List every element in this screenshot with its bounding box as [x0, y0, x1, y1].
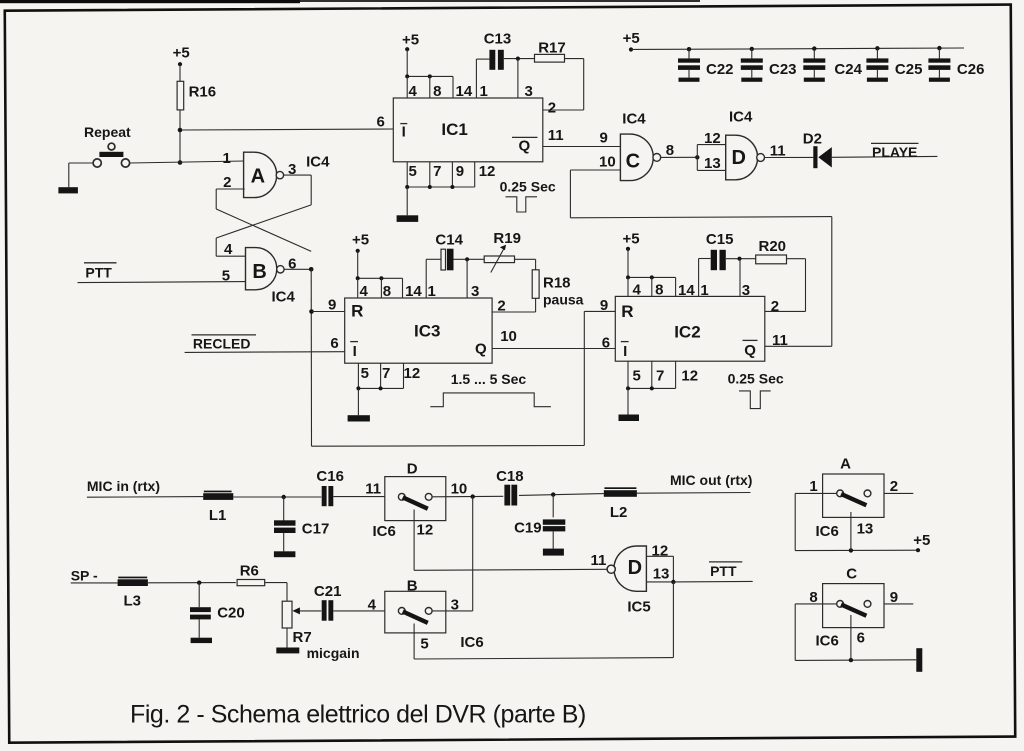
svg-text:MIC out (rtx): MIC out (rtx): [670, 472, 752, 488]
svg-text:+5: +5: [623, 230, 640, 247]
wire pin13: [850, 512, 852, 550]
wire: [535, 298, 537, 312]
wire: [333, 496, 398, 498]
svg-text:PTT: PTT: [85, 265, 112, 281]
svg-text:10: 10: [500, 328, 517, 345]
svg-text:IC2: IC2: [674, 322, 700, 341]
capacitor C13: [489, 50, 495, 70]
svg-text:+5: +5: [352, 232, 369, 249]
ground C17: [274, 551, 296, 557]
svg-text:C17: C17: [302, 521, 330, 538]
svg-text:IC4: IC4: [622, 110, 646, 127]
wire pin10: [570, 169, 620, 171]
IC1 box: [393, 98, 543, 162]
NAND gate C (IC4): [620, 134, 653, 181]
wire: [671, 580, 675, 584]
wire IC2 Q out pin11: [765, 345, 832, 347]
svg-text:IC5: IC5: [627, 598, 650, 615]
svg-text:8: 8: [666, 142, 674, 159]
wire: [71, 582, 118, 584]
svg-text:5: 5: [420, 636, 428, 653]
svg-text:IC4: IC4: [729, 109, 753, 126]
svg-text:A: A: [251, 166, 265, 188]
wire: [286, 628, 288, 648]
svg-text:C26: C26: [957, 61, 985, 78]
svg-text:9: 9: [600, 129, 608, 146]
switch B (IC6): [385, 591, 446, 633]
svg-text:2: 2: [771, 298, 779, 315]
inductor L3: [118, 577, 147, 579]
resistor R20: [756, 255, 787, 264]
svg-text:C18: C18: [496, 468, 524, 485]
svg-text:MIC in (rtx): MIC in (rtx): [87, 478, 160, 494]
node MIC out: [637, 492, 751, 495]
svg-text:D2: D2: [803, 131, 822, 148]
svg-text:8: 8: [433, 83, 441, 100]
ground bar switch C: [916, 648, 922, 672]
wire latch output down: [310, 269, 312, 446]
wire: [565, 58, 584, 60]
svg-text:L1: L1: [209, 507, 227, 524]
svg-text:3: 3: [471, 283, 479, 300]
wire: [283, 174, 311, 176]
wire: [515, 258, 536, 260]
wire down to switch B pin3: [472, 497, 474, 611]
svg-text:B: B: [252, 261, 266, 283]
svg-text:9: 9: [456, 163, 464, 180]
svg-text:5: 5: [361, 365, 369, 382]
svg-text:9: 9: [600, 297, 608, 314]
svg-text:6: 6: [602, 334, 610, 351]
node PTT output: [673, 580, 752, 583]
svg-text:IC6: IC6: [816, 633, 839, 650]
capacitor C14: [441, 249, 446, 270]
wire: [216, 188, 245, 190]
svg-text:R18: R18: [543, 274, 571, 291]
wire: [130, 161, 245, 163]
wire: [406, 49, 408, 76]
svg-text:12: 12: [652, 543, 669, 560]
svg-text:Q: Q: [519, 138, 531, 155]
svg-text:micgain: micgain: [307, 645, 360, 661]
wire: [284, 268, 311, 270]
capacitor C20: [198, 583, 200, 608]
wire: [519, 494, 604, 496]
wire: [265, 582, 287, 584]
svg-text:C23: C23: [769, 61, 797, 78]
svg-text:PTT: PTT: [710, 563, 737, 579]
switch D (IC6): [385, 477, 446, 521]
svg-text:C15: C15: [706, 231, 734, 248]
ground R7: [276, 648, 299, 654]
resistor R18: [532, 270, 539, 299]
ground C20: [191, 638, 212, 643]
svg-text:IC1: IC1: [441, 120, 467, 139]
svg-text:Fig. 2 - Schema elettrico del: Fig. 2 - Schema elettrico del DVR (parte…: [130, 700, 586, 728]
wire pin1: [425, 259, 427, 298]
svg-text:I: I: [402, 124, 406, 141]
svg-text:5: 5: [633, 368, 641, 385]
capacitor C15: [711, 250, 717, 270]
scan edge strip top: [0, 0, 300, 3]
svg-text:D: D: [407, 461, 418, 478]
svg-text:RECLED: RECLED: [193, 336, 251, 352]
svg-text:1.5 ... 5 Sec: 1.5 ... 5 Sec: [451, 371, 527, 387]
wire: [627, 388, 629, 414]
wire Q out pin11: [543, 146, 621, 148]
wire: [433, 495, 504, 498]
svg-text:14: 14: [456, 83, 473, 100]
wire: [69, 162, 93, 164]
svg-text:4: 4: [224, 241, 233, 258]
capacitor C16: [322, 486, 327, 506]
svg-text:2: 2: [497, 298, 505, 315]
wire: [179, 64, 181, 81]
svg-text:C25: C25: [895, 61, 923, 78]
capacitor C24: [803, 46, 862, 81]
svg-text:+5: +5: [402, 32, 419, 49]
resistor R17: [535, 54, 565, 62]
capacitor C21: [322, 600, 327, 621]
svg-text:3: 3: [525, 83, 533, 100]
wire: [180, 129, 393, 130]
svg-text:IC4: IC4: [272, 288, 296, 305]
svg-text:9: 9: [328, 296, 336, 313]
svg-text:IC6: IC6: [460, 634, 483, 651]
ground: [58, 187, 78, 193]
wire: [185, 351, 345, 354]
svg-text:C19: C19: [514, 520, 542, 537]
wire: [312, 445, 585, 448]
wire: [357, 388, 359, 415]
ground IC1: [397, 215, 419, 222]
svg-text:R16: R16: [189, 84, 217, 101]
svg-text:7: 7: [656, 368, 664, 385]
wire: [87, 496, 203, 499]
svg-text:2: 2: [890, 478, 898, 495]
svg-text:2: 2: [548, 100, 556, 117]
capacitor C18: [504, 485, 510, 506]
svg-text:11: 11: [770, 142, 786, 159]
svg-text:IC4: IC4: [306, 153, 330, 170]
svg-text:C: C: [846, 565, 857, 582]
inductor L2: [604, 487, 636, 489]
svg-text:C: C: [626, 151, 640, 173]
svg-text:3: 3: [742, 282, 750, 299]
wire: [504, 58, 535, 60]
svg-text:8: 8: [655, 281, 663, 298]
svg-text:0.25 Sec: 0.25 Sec: [728, 371, 784, 387]
wire switch B control: [413, 624, 415, 660]
wire pin6: [850, 615, 852, 660]
svg-text:14: 14: [678, 282, 695, 299]
diode D2: [813, 146, 817, 168]
svg-text:1: 1: [809, 478, 817, 495]
svg-text:1: 1: [480, 83, 488, 100]
svg-text:13: 13: [857, 521, 874, 538]
svg-text:6: 6: [330, 335, 338, 352]
svg-text:13: 13: [653, 566, 670, 583]
NAND gate B (IC4): [246, 248, 277, 290]
svg-text:B: B: [407, 578, 418, 595]
svg-text:+5: +5: [913, 532, 930, 549]
svg-text:PLAYE: PLAYE: [872, 144, 917, 160]
ground IC2: [619, 415, 640, 422]
capacitor C19: [552, 495, 554, 518]
inductor L1: [204, 491, 232, 493]
svg-text:Q: Q: [744, 342, 756, 359]
svg-text:pausa: pausa: [543, 291, 584, 307]
wire: [795, 492, 836, 494]
wire IC3 Q out: [492, 348, 615, 350]
svg-text:IC6: IC6: [816, 523, 839, 540]
wire: [884, 603, 913, 605]
ground IC3: [348, 415, 370, 421]
svg-text:C16: C16: [316, 468, 344, 485]
wire: [884, 492, 913, 494]
svg-text:10: 10: [451, 480, 468, 497]
wire: [148, 582, 236, 584]
svg-text:12: 12: [417, 522, 434, 539]
svg-text:A: A: [840, 455, 851, 472]
wire: [233, 496, 321, 498]
svg-text:8: 8: [383, 283, 391, 300]
svg-text:C20: C20: [217, 605, 245, 622]
resistor R19 trimmer: [484, 256, 514, 263]
svg-text:R6: R6: [240, 562, 259, 579]
wire: [406, 187, 408, 215]
svg-text:12: 12: [479, 163, 496, 180]
svg-text:R20: R20: [759, 238, 787, 255]
svg-text:Q: Q: [475, 340, 487, 357]
svg-text:SP -: SP -: [71, 567, 98, 583]
svg-text:6: 6: [288, 256, 296, 273]
svg-text:C24: C24: [834, 61, 862, 78]
wire IC5 inputs 12/13: [646, 555, 673, 557]
svg-text:7: 7: [433, 163, 441, 180]
capacitor C22: [678, 47, 734, 82]
NAND gate D (IC5, mirrored): [614, 546, 646, 591]
NAND gate D (IC4): [726, 135, 758, 180]
NAND gate A (IC4): [244, 152, 277, 197]
svg-text:12: 12: [681, 368, 698, 385]
svg-text:6: 6: [377, 114, 385, 131]
svg-text:4: 4: [409, 83, 418, 100]
svg-text:L2: L2: [610, 504, 628, 521]
wire: [78, 282, 246, 283]
wire: [584, 310, 615, 312]
svg-text:I: I: [623, 343, 627, 360]
svg-text:D: D: [732, 147, 746, 169]
resistor R16: [177, 81, 184, 110]
wire: [787, 258, 806, 260]
svg-text:12: 12: [404, 365, 421, 382]
svg-text:11: 11: [591, 552, 607, 569]
ground C19: [543, 549, 564, 556]
svg-text:C22: C22: [706, 61, 734, 78]
wire: [433, 610, 473, 612]
svg-text:4: 4: [368, 597, 377, 614]
svg-text:R: R: [351, 301, 363, 320]
wire gate C out: [661, 156, 698, 158]
svg-text:11: 11: [772, 332, 788, 349]
wire: [726, 258, 757, 260]
wire bracket pins 12/13: [696, 145, 698, 171]
wire: [765, 156, 814, 158]
wire: [631, 48, 964, 50]
svg-text:10: 10: [599, 154, 616, 171]
svg-text:11: 11: [548, 127, 564, 144]
svg-text:C21: C21: [314, 583, 342, 600]
wire pin1: [698, 259, 700, 297]
wire: [312, 311, 345, 313]
svg-text:C14: C14: [435, 231, 463, 248]
capacitor C23: [741, 47, 797, 82]
wire: [627, 249, 629, 278]
svg-text:C13: C13: [484, 31, 512, 48]
svg-text:1: 1: [223, 150, 231, 167]
IC2 bottom pins: [627, 361, 629, 388]
IC1 bottom pins: [406, 162, 408, 187]
svg-text:D: D: [628, 557, 642, 579]
svg-text:IC3: IC3: [414, 322, 440, 341]
svg-text:5: 5: [409, 163, 417, 180]
svg-text:12: 12: [704, 130, 721, 147]
wire: [357, 251, 359, 278]
svg-text:Repeat: Repeat: [84, 124, 131, 140]
wire: [832, 155, 938, 158]
svg-text:4: 4: [360, 283, 369, 300]
svg-text:+5: +5: [173, 45, 190, 62]
svg-text:11: 11: [365, 480, 381, 497]
wire pin1: [475, 59, 477, 98]
wire: [795, 603, 836, 605]
svg-text:1: 1: [428, 283, 436, 300]
svg-text:I: I: [353, 343, 357, 360]
capacitor C25: [866, 46, 922, 82]
wire: [179, 110, 181, 163]
IC2 box: [615, 296, 765, 361]
wiper arrow: [298, 610, 322, 612]
capacitor C17: [283, 497, 285, 521]
resistor R7 trimmer: [282, 601, 292, 628]
svg-text:0.25 Sec: 0.25 Sec: [500, 179, 556, 195]
wire: [333, 610, 398, 612]
svg-text:13: 13: [704, 155, 721, 172]
svg-text:R: R: [621, 302, 633, 321]
svg-text:IC6: IC6: [373, 523, 396, 540]
svg-text:R19: R19: [493, 230, 521, 247]
svg-text:6: 6: [857, 629, 865, 646]
svg-text:L3: L3: [124, 592, 142, 609]
svg-text:1: 1: [700, 282, 708, 299]
IC3 box: [345, 298, 492, 363]
wire switch D control: [413, 510, 415, 571]
capacitor C26: [928, 46, 984, 82]
svg-text:7: 7: [382, 365, 390, 382]
svg-text:14: 14: [405, 283, 422, 300]
resistor R6: [237, 580, 265, 586]
IC3 bottom pins: [357, 363, 359, 388]
svg-text:4: 4: [633, 281, 642, 298]
svg-text:R7: R7: [293, 629, 312, 646]
wire: [454, 258, 485, 260]
svg-text:R17: R17: [538, 40, 566, 57]
svg-text:+5: +5: [623, 30, 640, 47]
